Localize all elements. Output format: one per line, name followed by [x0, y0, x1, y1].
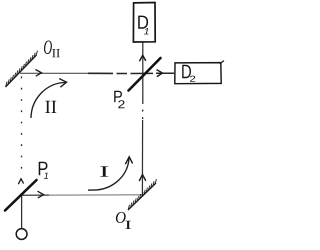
- wire: bottom horizontal beam from P1 to mirror O_I: [21, 194, 49, 196]
- label II: [45, 101, 50, 113]
- detector box D2: [175, 63, 221, 84]
- arrowhead up on right vertical above O_I: [139, 175, 146, 181]
- curved path arrow I: [88, 158, 129, 191]
- label P1: [39, 162, 48, 175]
- source circle: [16, 229, 27, 240]
- wire: right vertical beam O_I to P2 and up to D1: [141, 43, 143, 196]
- wire: top horizontal beam from mirror O_II through P2 to D2: [20, 72, 174, 74]
- label O_II: [44, 41, 52, 55]
- label P2: [114, 91, 122, 102]
- arrowhead up on left vertical above P1: [18, 179, 23, 184]
- mirror O_II (hatched): [6, 51, 38, 87]
- arrowhead on beam into D2: [157, 70, 163, 77]
- arrowhead on bottom beam near P1: [38, 191, 44, 198]
- label D1: [138, 16, 148, 29]
- detector box D1: [133, 3, 155, 43]
- mirror O_I (hatched): [128, 179, 156, 210]
- wire: left vertical dotted beam P1 to O_II: [21, 77, 23, 177]
- beam splitter P2: [129, 58, 161, 91]
- curved path arrow II: [31, 82, 66, 118]
- label O_I: [116, 212, 126, 223]
- overshoot tick at D2 top-right corner: [220, 61, 224, 64]
- wire: source vertical line below P1: [21, 196, 23, 229]
- arrowhead on top beam near O_II: [36, 70, 42, 77]
- beam splitter P1: [5, 180, 37, 211]
- label I: [100, 166, 108, 177]
- label D2: [182, 65, 191, 78]
- arrowhead up into D1: [139, 55, 145, 61]
